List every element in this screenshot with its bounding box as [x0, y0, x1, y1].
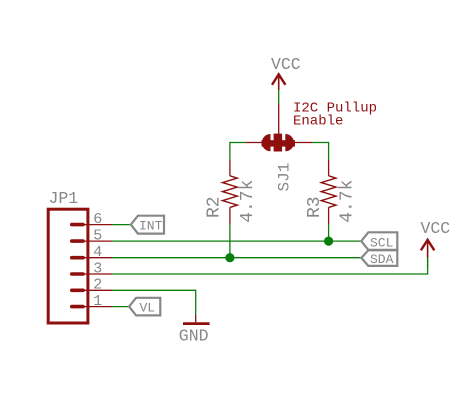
svg-text:R2: R2: [205, 196, 225, 218]
svg-text:Enable: Enable: [293, 114, 343, 130]
svg-text:GND: GND: [179, 327, 209, 346]
svg-text:R3: R3: [305, 196, 325, 218]
wire R3 top vertical: [328, 142, 330, 160]
junction on SCL net: [324, 237, 333, 246]
pin 1: [72, 305, 112, 309]
wire pin3 to VCC horizontal: [112, 273, 428, 275]
wire SJ1 left horizontal: [230, 142, 245, 144]
flag INT: [131, 216, 164, 234]
flag VL: [129, 298, 160, 316]
svg-text:5: 5: [93, 227, 102, 244]
flag SCL: [361, 232, 397, 250]
pin 6: [72, 223, 112, 227]
pin 2: [72, 288, 112, 292]
svg-text:INT: INT: [139, 219, 163, 234]
wire SJ1 right horizontal: [312, 142, 329, 144]
svg-text:VCC: VCC: [421, 219, 451, 238]
wire R3 bottom to SCL: [328, 224, 330, 241]
wire R2 top vertical: [229, 142, 231, 160]
resistor R2: [222, 160, 237, 224]
svg-text:4.7k: 4.7k: [338, 180, 358, 223]
wire VCC top to SJ1: [278, 90, 280, 104]
pin 3: [72, 272, 112, 276]
wire pin2 to GND horizontal: [112, 289, 196, 291]
svg-text:VCC: VCC: [271, 55, 301, 74]
wire pin3 to VCC vertical: [427, 258, 429, 275]
svg-text:SJ1: SJ1: [276, 163, 294, 192]
wire pin2 to GND vertical: [195, 290, 197, 315]
wire pin1 to VL: [112, 306, 129, 308]
svg-text:3: 3: [93, 260, 102, 277]
svg-text:6: 6: [93, 211, 102, 228]
svg-text:1: 1: [93, 293, 102, 310]
flag SDA: [361, 250, 397, 266]
svg-text:2: 2: [93, 277, 102, 294]
power symbol VCC right: [421, 240, 434, 258]
junction on SDA net: [225, 253, 234, 262]
svg-text:VL: VL: [140, 301, 156, 316]
svg-text:4: 4: [93, 244, 102, 261]
wire R2 bottom to SDA: [229, 224, 231, 258]
svg-text:4.7k: 4.7k: [238, 180, 258, 223]
wire pin4 to SDA: [112, 257, 361, 259]
GND symbol: [183, 315, 210, 324]
wire pin5 to SCL: [112, 240, 361, 242]
connector JP1 body: [48, 209, 88, 323]
pin 5: [72, 239, 112, 243]
power symbol VCC top: [272, 74, 285, 90]
wire pin6 to INT: [112, 224, 131, 226]
resistor R3: [321, 160, 336, 224]
svg-text:SDA: SDA: [370, 252, 394, 267]
svg-text:JP1: JP1: [49, 189, 79, 208]
svg-text:SCL: SCL: [370, 236, 393, 251]
wire VCC right vertical: [427, 258, 429, 269]
solder jumper SJ1: [245, 104, 312, 152]
pin 4: [72, 256, 112, 260]
